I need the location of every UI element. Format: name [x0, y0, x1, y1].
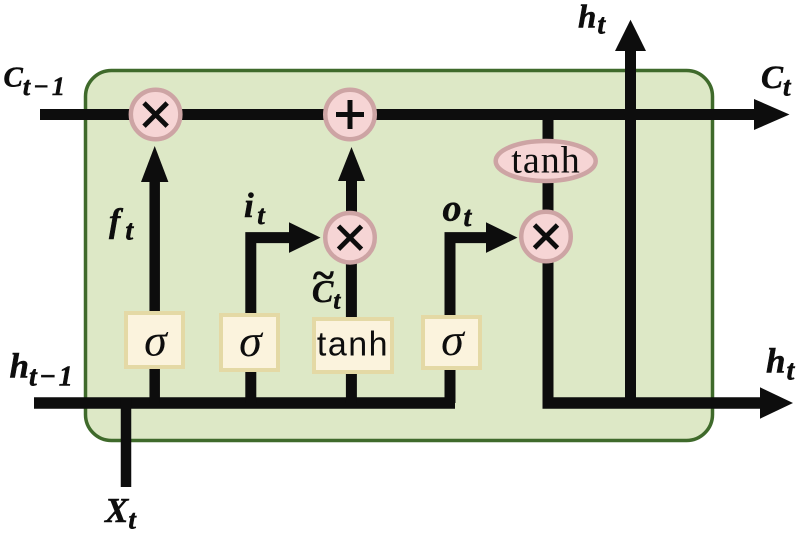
sigma box 2 (input gate) [221, 315, 278, 370]
multiply node 3 (output gate) [521, 212, 571, 262]
wire: hidden state output line h_t (right segment) [543, 387, 794, 418]
svg-text:tanh: tanh [511, 140, 580, 182]
svg-text:ht: ht [766, 342, 795, 387]
svg-text:ht: ht [578, 0, 606, 41]
wire: candidate stem (tanh box up to multiply node 2, on to add node) [338, 147, 365, 403]
label C~_t (candidate) [312, 253, 341, 315]
tanh ellipse (cell output activation) [496, 140, 596, 182]
add node (cell state update) [325, 90, 375, 140]
multiply node 1 (forget gate) [131, 90, 181, 140]
svg-text:tanh: tanh [317, 326, 389, 364]
wire: hidden state input line h_t-1 (left segment) [34, 397, 455, 409]
wire: X_t input stem [121, 398, 132, 487]
wire: h_t vertical output arrow [615, 20, 646, 403]
svg-text:Ct: Ct [761, 60, 792, 102]
wire: cell output branch (cell line down through tanh ellipse and multiply node 3 to h line) [543, 115, 554, 404]
svg-text:~: ~ [313, 253, 334, 298]
wire: output gate elbow (sigma3 up then right into multiply node 3) [450, 222, 518, 403]
svg-text:σ: σ [239, 315, 264, 366]
wire: input gate elbow (sigma2 up then right into multiply node 2) [251, 222, 321, 403]
wire: forget gate stem (sigma1 up to multiply node) [141, 146, 168, 403]
svg-text:Xt: Xt [104, 491, 137, 533]
sigma box 1 (forget gate) [126, 313, 183, 367]
sigma box 3 (output gate) [423, 314, 480, 368]
LSTM cell body [86, 71, 713, 441]
svg-text:ht−1: ht−1 [10, 347, 76, 393]
svg-text:σ: σ [144, 315, 169, 366]
tanh box (candidate) [314, 319, 392, 372]
svg-text:σ: σ [441, 314, 466, 365]
wire: cell state line Ct-1 to Ct [40, 99, 790, 130]
multiply node 2 (input gate) [325, 213, 375, 263]
svg-text:Ct−1: Ct−1 [4, 62, 68, 102]
